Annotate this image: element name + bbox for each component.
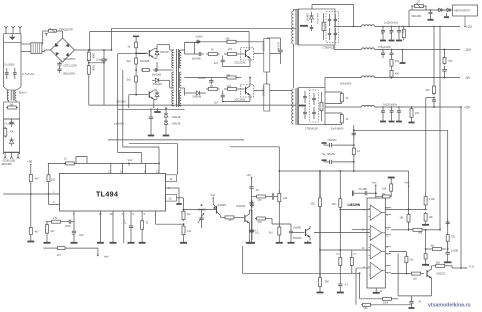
- wire T2 sec bottom: [181, 88, 184, 96]
- wire: [104, 49, 112, 51]
- label R18: [346, 118, 349, 121]
- svg-text:10nFx600V: 10nFx600V: [331, 128, 344, 131]
- wire: [325, 113, 342, 125]
- resistor R51 10k b: [424, 212, 427, 223]
- capacitor C48 0.1: [338, 273, 342, 288]
- TR2 box: [299, 88, 326, 125]
- T2 secondary: [179, 50, 181, 106]
- wire main down1: [278, 147, 280, 233]
- wire: [464, 16, 465, 27]
- svg-text:LM339N: LM339N: [348, 203, 361, 207]
- label C11: [198, 76, 206, 80]
- svg-text:10x63В: 10x63В: [293, 226, 302, 229]
- wire -12V rail: [375, 48, 472, 52]
- resistor R18 10: [340, 113, 343, 125]
- wire: [294, 10, 299, 12]
- resistor R11 2k2: [224, 53, 240, 56]
- label R10: [211, 48, 214, 52]
- capacitor C50: [446, 219, 450, 234]
- capacitor C39 10x63V: [198, 210, 204, 228]
- capacitor C37: [72, 222, 76, 236]
- label R50: [399, 216, 404, 219]
- resistor R52 100k: [391, 228, 430, 231]
- svg-text:1N4148: 1N4148: [153, 82, 163, 86]
- wire pin14: [120, 163, 124, 173]
- resistor R48 33k: [381, 193, 392, 199]
- capacitor C7 1uFx50V: [149, 108, 154, 122]
- resistor R55 lower: [424, 229, 427, 260]
- capacitor C49 47x16V: [353, 191, 377, 197]
- wire sense: [426, 97, 435, 192]
- label C46: [293, 226, 302, 229]
- svg-text:4к7: 4к7: [35, 230, 40, 234]
- ground: [380, 116, 386, 122]
- secondary box: [3, 101, 19, 120]
- wire: [197, 41, 199, 44]
- resistor R16 100: [320, 92, 323, 121]
- resistor R33 27k: [141, 211, 146, 232]
- terminal Vref: [128, 158, 133, 166]
- svg-text:10k: 10k: [226, 73, 231, 77]
- label Q4: [234, 97, 245, 101]
- svg-text:10k: 10k: [225, 36, 230, 40]
- resistor R54 8k2 row: [428, 243, 449, 251]
- wire v2427: [242, 246, 244, 273]
- resistor R38 470: [255, 195, 267, 198]
- ground: [409, 119, 415, 123]
- ground: [27, 236, 34, 242]
- wire pin2 loop: [12, 193, 14, 195]
- label C1a: [4, 64, 15, 67]
- wire: [278, 147, 280, 172]
- svg-text:470: 470: [257, 221, 262, 224]
- wire Q3 collector: [240, 31, 249, 49]
- wire Q3 emitter: [223, 58, 250, 67]
- trimmer R25 22: [411, 0, 427, 8]
- wire: [194, 41, 198, 43]
- svg-text:-12V: -12V: [464, 48, 472, 52]
- wire pin8: [144, 163, 146, 173]
- ground: [180, 237, 187, 243]
- label R49: [429, 198, 436, 201]
- capacitor C12 2u7: [221, 91, 225, 102]
- svg-text:100: 100: [415, 112, 420, 115]
- wire Q5 collector: [221, 215, 224, 217]
- svg-text:4A: 4A: [10, 129, 13, 133]
- comparator U2C: [369, 244, 386, 259]
- svg-text:2N2222: 2N2222: [236, 204, 246, 208]
- resistor R23 760: [433, 26, 436, 95]
- wire Q5 base: [205, 209, 217, 211]
- label R53: [451, 236, 456, 239]
- wire lm339 in4: [356, 268, 370, 305]
- wire: [376, 196, 381, 198]
- U1 pin2 wire: [49, 183, 60, 204]
- ground: [248, 235, 255, 243]
- wire: [240, 53, 241, 55]
- wire Q2 emitter: [153, 99, 155, 108]
- capacitor C36 10nF: [66, 220, 74, 224]
- wire mid vert: [123, 70, 159, 147]
- resistor R22 750: [443, 49, 446, 65]
- resistor R37 1k2: [182, 224, 185, 236]
- svg-text:Vref: Vref: [372, 180, 377, 184]
- diode VD5: [154, 90, 159, 100]
- wire v320: [319, 172, 321, 278]
- svg-text:2SC945: 2SC945: [140, 59, 150, 63]
- comparator U2A: [369, 205, 386, 220]
- label VD10: [261, 41, 264, 52]
- ground: [396, 116, 402, 122]
- svg-text:ВЕНТИЛЯТОР: ВЕНТИЛЯТОР: [454, 11, 470, 13]
- svg-text:720: 720: [451, 236, 456, 239]
- svg-text:СТВ34128: СТВ34128: [305, 127, 318, 131]
- diode VD3 1N4148: [154, 49, 159, 59]
- label R52: [418, 232, 423, 235]
- label C6: [152, 73, 162, 77]
- label C39: [198, 209, 207, 212]
- label R33: [145, 220, 149, 225]
- wire: [88, 77, 90, 105]
- ground: [139, 232, 146, 243]
- svg-text:3 16k: 3 16k: [429, 198, 436, 201]
- wire lm out4: [391, 273, 408, 275]
- label VD9: [192, 96, 201, 99]
- resistor R4: [4, 127, 7, 138]
- resistor R49 3.16k: [424, 192, 427, 209]
- capacitor C1b: [13, 68, 17, 79]
- wire q7c: [310, 226, 367, 233]
- wire: [47, 163, 50, 173]
- label R54: [431, 244, 435, 247]
- label R32: [51, 229, 56, 233]
- label R17: [346, 97, 349, 100]
- svg-text:Vref: Vref: [405, 180, 410, 184]
- wire: [183, 220, 185, 225]
- wire bus2: [89, 31, 249, 50]
- label R11: [228, 47, 233, 51]
- TR1 core: [296, 10, 298, 45]
- svg-text:TL494: TL494: [96, 190, 118, 198]
- svg-text:750: 750: [448, 60, 453, 63]
- wire Q4 base: [240, 89, 245, 93]
- wire vr440: [439, 26, 441, 230]
- wire pin15: [99, 211, 103, 243]
- label R4: [10, 129, 13, 133]
- wire lm339 in2: [314, 232, 370, 234]
- label C32: [412, 15, 422, 18]
- transistor Q8 2N2222: [427, 269, 432, 278]
- ground: [276, 237, 283, 243]
- wire: [157, 45, 174, 50]
- label R12: [226, 73, 231, 77]
- ground top bias: [388, 178, 395, 183]
- ground: [166, 188, 182, 204]
- svg-text:1uFx50V: 1uFx50V: [114, 121, 125, 125]
- transistor Q4 2SC4242: [241, 85, 254, 98]
- capacitor C4 primary: [101, 50, 106, 70]
- resistor R60 560 fb: [361, 303, 412, 306]
- ground: [148, 123, 155, 136]
- capacitor C44 bar: [267, 193, 279, 200]
- label C13: [277, 42, 280, 52]
- wire TR1 sec out2: [334, 45, 362, 50]
- svg-text:2к2: 2к2: [127, 59, 132, 63]
- label R58: [409, 259, 414, 262]
- terminal Vref3: [210, 193, 215, 204]
- IC U1 TL494 box: [60, 174, 166, 212]
- resistor R28 1k: [64, 162, 76, 165]
- svg-text:1х50В: 1х50В: [451, 249, 458, 252]
- svg-text:1N4148: 1N4148: [192, 96, 201, 99]
- label R43: [332, 202, 337, 206]
- transistor Q5 2N2907 PNP: [213, 204, 220, 215]
- capacitor C52 33: [409, 296, 413, 306]
- capacitor C34 470x25v: [322, 143, 355, 155]
- wire Q1 emitter join: [154, 58, 158, 71]
- resistor R29 4k7: [29, 173, 32, 183]
- watermark: [428, 303, 471, 309]
- svg-text:Vref: Vref: [128, 158, 133, 162]
- svg-text:1N4148: 1N4148: [172, 116, 181, 119]
- svg-text:0.1: 0.1: [345, 283, 349, 286]
- label VD3: [160, 50, 170, 54]
- U2 pin stubs right: [385, 208, 391, 273]
- resistor R27 2k2: [47, 173, 50, 183]
- svg-text:2к2: 2к2: [51, 178, 56, 182]
- choke L4: [362, 76, 375, 78]
- svg-text:+5V: +5V: [464, 106, 471, 110]
- capacitor C38: [129, 211, 135, 243]
- label R14: [227, 84, 232, 88]
- wire: [340, 250, 352, 256]
- svg-text:470uFx25v: 470uFx25v: [378, 45, 392, 49]
- label R36: [228, 219, 233, 222]
- ground: [163, 127, 170, 136]
- diode VD9 1N4148: [185, 91, 207, 95]
- wire Q8 collector: [432, 266, 434, 270]
- svg-text:47k: 47k: [53, 216, 58, 220]
- wire vref bus: [43, 243, 56, 249]
- svg-text:430: 430: [395, 60, 400, 63]
- resistor R35 12k: [182, 210, 185, 221]
- svg-text:РхВО605: РхВО605: [261, 86, 264, 97]
- label Q2: [116, 99, 126, 103]
- svg-text:2N2222: 2N2222: [293, 236, 303, 240]
- svg-text:5nFx600V: 5nFx600V: [340, 82, 352, 85]
- wire pin13: [108, 163, 112, 173]
- wire: [430, 229, 440, 231]
- svg-text:100k: 100k: [383, 301, 389, 304]
- transformer TR1 winding: [292, 11, 294, 44]
- label C28: [383, 102, 398, 106]
- svg-text:4В/300Вт: 4В/300Вт: [1, 163, 13, 166]
- svg-text:100k: 100k: [92, 53, 96, 59]
- label R51: [429, 216, 434, 219]
- capacitor C2 680x250V: [57, 62, 61, 67]
- label C48: [345, 283, 349, 286]
- svg-text:560: 560: [364, 307, 369, 310]
- wire Q6 collector: [249, 210, 252, 228]
- svg-text:12: 12: [156, 169, 160, 173]
- ground: [124, 242, 135, 244]
- resistor R15 100: [322, 13, 325, 40]
- wire: [136, 65, 170, 75]
- label R27: [51, 178, 56, 182]
- resistor R14 2k2: [224, 88, 240, 91]
- capacitor C16: [303, 107, 307, 119]
- label VD7: [172, 122, 181, 125]
- U1 pin10 stub: [166, 195, 177, 202]
- label R15: [321, 23, 323, 27]
- label R8: [127, 78, 132, 82]
- wire lm input wires: [320, 210, 340, 251]
- label Q8: [436, 272, 446, 276]
- label R5: [127, 45, 130, 49]
- wire: [118, 53, 147, 55]
- U2 pin labels right: [386, 207, 389, 275]
- ground: [246, 223, 253, 243]
- svg-text:1N4005: 1N4005: [306, 13, 308, 22]
- resistor R45 560: [339, 250, 342, 267]
- label R23: [425, 89, 430, 92]
- label R6: [127, 59, 132, 63]
- fuse F1: [48, 29, 56, 33]
- diode VD7 1N4148: [164, 119, 168, 127]
- svg-text:1x50V: 1x50V: [198, 76, 206, 80]
- resistor R43 10k: [339, 197, 342, 210]
- comparator U2B: [369, 225, 386, 240]
- resistor R46 470: [350, 256, 353, 267]
- label R3: [10, 102, 15, 106]
- wire TR1 snub: [312, 4, 355, 27]
- ground: [97, 242, 104, 244]
- wire: [170, 70, 174, 88]
- resistor R24 100: [410, 107, 413, 119]
- wire: [103, 70, 105, 105]
- dashed caps box2: [310, 90, 319, 122]
- wire Q3 base: [240, 53, 245, 55]
- resistor R17 10: [340, 92, 343, 104]
- wire: [408, 209, 410, 229]
- label C49: [359, 188, 368, 191]
- label C3: [63, 72, 75, 76]
- label C14: [316, 13, 318, 25]
- svg-text:2u7: 2u7: [214, 100, 219, 104]
- diode VD8 1N4148: [192, 58, 201, 61]
- capacitor C9: [194, 42, 204, 56]
- svg-text:1N4148: 1N4148: [152, 73, 162, 77]
- diode block VD11: [264, 84, 270, 111]
- svg-text:1N4148: 1N4148: [172, 122, 181, 125]
- wire: [30, 183, 32, 226]
- wire h2326: [352, 228, 370, 230]
- wire: [67, 248, 99, 256]
- label C45: [255, 232, 259, 235]
- label R44: [325, 281, 330, 284]
- wire node: [88, 49, 105, 51]
- capacitor C6: [153, 68, 159, 72]
- wire: [42, 31, 49, 44]
- label R13: [210, 84, 213, 88]
- wire PG: [447, 266, 466, 269]
- wire pin16: [109, 211, 113, 243]
- capacitor C45: [249, 228, 253, 235]
- label R57: [413, 278, 417, 281]
- capacitor C21: [390, 26, 394, 36]
- label 1nF: [123, 220, 127, 225]
- U1 pin1 wire: [3, 190, 59, 195]
- wire Q1 collector: [154, 45, 157, 49]
- label C5: [4, 121, 15, 125]
- label C23: [378, 45, 392, 49]
- wire TR1 bottom: [293, 44, 295, 88]
- label Q7: [293, 236, 303, 240]
- ground: [288, 236, 295, 243]
- svg-text:11: 11: [170, 177, 173, 181]
- wire h146: [230, 146, 279, 148]
- ground: [71, 236, 78, 243]
- svg-text:Vref: Vref: [210, 193, 215, 197]
- transistor Q3 2SC4242: [241, 48, 254, 61]
- svg-text:10nF: 10nF: [65, 224, 71, 228]
- label R47: [382, 187, 387, 191]
- ground: [409, 306, 415, 309]
- svg-text:10: 10: [169, 197, 173, 201]
- label R48: [382, 193, 387, 196]
- feedback loop: [76, 157, 87, 164]
- wire: [267, 197, 291, 219]
- svg-text:10x63В: 10x63В: [198, 209, 207, 212]
- svg-text:СЕТЬ 220V: СЕТЬ 220V: [63, 64, 77, 68]
- label R19: [402, 30, 404, 34]
- ground: [304, 241, 311, 243]
- T2 core: [177, 49, 179, 107]
- U2 pin labels left: [362, 209, 366, 269]
- svg-text:2N2222: 2N2222: [436, 272, 446, 276]
- label R28: [64, 156, 67, 160]
- capacitor C5: [4, 119, 20, 127]
- bridge rectifier VD1: [51, 38, 75, 62]
- label fan: [454, 11, 470, 13]
- wire: [21, 44, 31, 52]
- label Vref2: [104, 255, 109, 259]
- driver transformer T2 primary: [172, 50, 174, 106]
- label U2: [348, 203, 361, 207]
- capacitor C13 1nF 1kV: [278, 44, 283, 58]
- label R59: [383, 301, 389, 304]
- label R60: [364, 307, 369, 310]
- wire h171: [279, 171, 408, 186]
- resistor R41 3k3: [278, 226, 281, 237]
- ground: [422, 260, 429, 265]
- wire +5V rail: [375, 106, 471, 110]
- capacitor C41 0.1: [250, 210, 258, 240]
- label C2: [63, 57, 75, 61]
- resistor R2 100k: [87, 63, 90, 77]
- capacitor C43: [249, 197, 255, 208]
- resistor R1 100k: [87, 50, 90, 63]
- rail terminal: [133, 36, 139, 41]
- resistor R8 3k3: [135, 75, 138, 83]
- label C8: [195, 35, 203, 39]
- TR1 box: [299, 9, 336, 45]
- svg-text:1N4148: 1N4148: [192, 58, 201, 61]
- U2 ground: [373, 288, 383, 293]
- wire vr447: [353, 129, 448, 249]
- terminal +5V: [27, 159, 32, 173]
- svg-text:2к7: 2к7: [51, 229, 56, 233]
